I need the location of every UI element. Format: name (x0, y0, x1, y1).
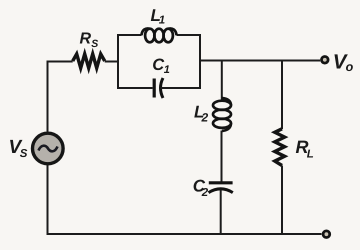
svg-text:1: 1 (164, 64, 170, 76)
svg-text:2: 2 (201, 187, 209, 199)
wire: tank bottom edge left segment (117, 87, 153, 89)
svg-text:1: 1 (159, 15, 165, 27)
inductor L2 (213, 98, 231, 131)
svg-text:o: o (346, 60, 354, 74)
wire: C2 to bottom rail (220, 190, 222, 235)
svg-text:L: L (307, 148, 314, 160)
wire: source bottom to bottom rail (47, 165, 49, 235)
wire: RL to bottom rail (281, 166, 283, 235)
capacitor C1 left plate (153, 79, 156, 98)
wire: tank bottom edge right segment (161, 87, 202, 89)
source VS (33, 133, 64, 164)
svg-text:R: R (80, 31, 92, 48)
svg-text:2: 2 (201, 111, 209, 125)
terminal bottom-right (323, 231, 330, 238)
source VS tilde (39, 146, 58, 152)
wire: left vertical from top-left corner down to source top (47, 62, 49, 132)
wire: top-left horizontal to resistor (47, 61, 73, 63)
wire: between L2 and C2 (221, 131, 223, 183)
inductor L1 (142, 28, 177, 42)
wire: bottom rail (48, 233, 322, 235)
resistor RS (73, 54, 105, 68)
tank right edge (199, 35, 201, 88)
wire: L2 branch top (221, 61, 223, 101)
terminal Vo (322, 57, 329, 64)
wire: tank top edge right segment (177, 34, 202, 36)
wire: RL branch top (281, 61, 283, 130)
svg-text:S: S (20, 148, 28, 160)
wire: resistor to tank (105, 61, 118, 63)
capacitor C2 top plate (209, 181, 233, 184)
capacitor C2 bottom curved plate (209, 189, 233, 193)
resistor RL (275, 129, 285, 166)
wire: top output rail (200, 60, 320, 62)
tank left edge (117, 35, 119, 88)
capacitor C1 right curved plate (161, 78, 164, 98)
svg-text:S: S (91, 38, 98, 50)
wire: tank top edge left segment (117, 34, 142, 36)
